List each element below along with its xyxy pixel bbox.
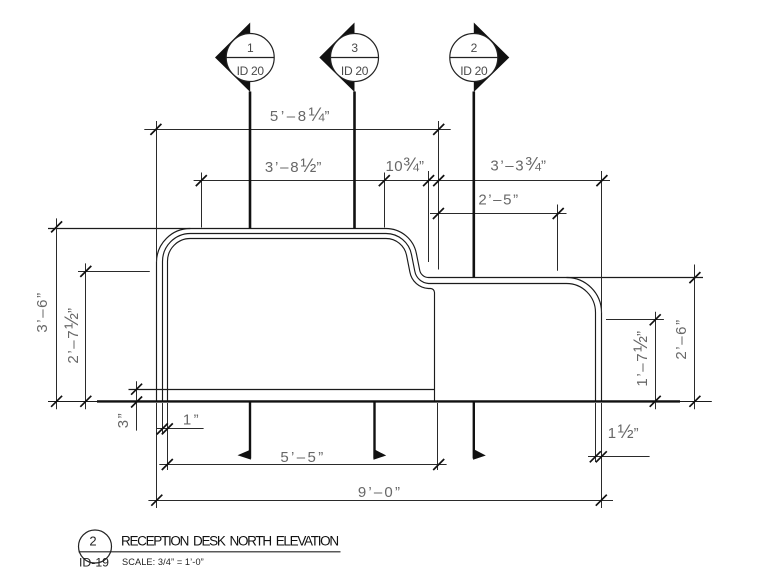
svg-text:3’–6”: 3’–6” [34,291,51,332]
svg-text:ID 20: ID 20 [341,64,369,78]
svg-text:2: 2 [89,534,96,549]
svg-text:1: 1 [247,41,254,55]
svg-text:5’–8¼”: 5’–8¼” [270,105,332,126]
svg-text:2’–6”: 2’–6” [673,318,690,359]
svg-text:5’–5”: 5’–5” [280,449,325,466]
svg-text:ID 20: ID 20 [460,64,488,78]
svg-text:2’–5”: 2’–5” [478,192,519,209]
svg-text:1’–7½”: 1’–7½” [631,329,652,386]
svg-text:3’–8½”: 3’–8½” [265,156,323,177]
svg-text:ID 20: ID 20 [237,64,265,78]
svg-text:2’–7½”: 2’–7½” [62,306,83,363]
svg-text:1”: 1” [183,412,201,429]
svg-text:3’–3¾”: 3’–3¾” [490,155,547,176]
svg-text:9’–0”: 9’–0” [358,484,402,501]
svg-text:1½”: 1½” [608,422,640,443]
svg-text:2: 2 [471,41,478,55]
svg-text:RECEPTION DESK NORTH ELEVATION: RECEPTION DESK NORTH ELEVATION [121,534,338,549]
svg-text:SCALE: 3/4” = 1’-0”: SCALE: 3/4” = 1’-0” [122,557,204,567]
svg-text:3: 3 [351,41,358,55]
svg-text:ID-19: ID-19 [79,556,109,570]
svg-text:10¾”: 10¾” [385,155,424,176]
svg-text:3”: 3” [115,412,132,429]
